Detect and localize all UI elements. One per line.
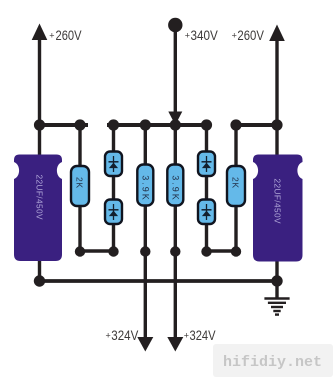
svg-text:22UF/450V: 22UF/450V bbox=[272, 179, 282, 224]
svg-text:+: + bbox=[106, 331, 111, 341]
svg-text:3.9K: 3.9K bbox=[170, 175, 180, 200]
svg-text:+: + bbox=[184, 331, 189, 341]
svg-text:340V: 340V bbox=[191, 27, 219, 43]
svg-text:260V: 260V bbox=[56, 27, 83, 43]
svg-text:2K: 2K bbox=[231, 177, 241, 188]
svg-text:260V: 260V bbox=[237, 27, 264, 43]
svg-text:22UF/450V: 22UF/450V bbox=[35, 175, 45, 220]
svg-text:+: + bbox=[49, 31, 54, 41]
svg-text:324V: 324V bbox=[190, 327, 217, 343]
svg-text:hifidiy.net: hifidiy.net bbox=[223, 354, 322, 371]
svg-text:+: + bbox=[185, 31, 190, 41]
svg-text:3.9K: 3.9K bbox=[140, 175, 150, 200]
svg-text:+: + bbox=[232, 31, 237, 41]
svg-text:2K: 2K bbox=[75, 177, 85, 188]
svg-text:324V: 324V bbox=[111, 327, 139, 343]
